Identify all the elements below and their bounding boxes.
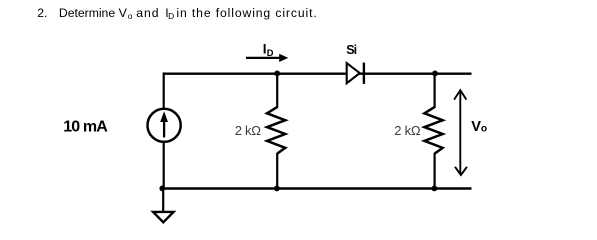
svg-text:10 mA: 10 mA bbox=[63, 119, 108, 136]
svg-text:Determine: Determine bbox=[59, 6, 115, 20]
svg-text:D: D bbox=[168, 11, 174, 21]
current arrow ID bbox=[246, 54, 288, 62]
svg-text:and: and bbox=[136, 6, 159, 20]
junction node bottom left bbox=[159, 186, 165, 192]
junction node top right bbox=[432, 71, 438, 77]
title text bbox=[37, 6, 317, 21]
diode D1 Si bbox=[347, 63, 364, 84]
wire left branch lower bbox=[163, 142, 165, 189]
junction node top middle bbox=[274, 71, 280, 77]
svg-text:V: V bbox=[119, 6, 128, 20]
svg-text:V: V bbox=[471, 119, 481, 135]
wire middle branch upper bbox=[276, 72, 278, 108]
svg-text:o: o bbox=[128, 11, 133, 21]
svg-text:2 kΩ: 2 kΩ bbox=[394, 123, 421, 138]
wire bottom horizontal bbox=[162, 187, 472, 189]
svg-text:2.: 2. bbox=[37, 6, 47, 20]
wire right branch lower bbox=[434, 153, 436, 189]
resistor R2 zigzag bbox=[424, 107, 442, 154]
ground symbol bbox=[153, 212, 174, 222]
Vo measurement arrow bbox=[454, 90, 467, 175]
junction node bottom right bbox=[432, 186, 438, 192]
junction node bottom middle bbox=[274, 186, 280, 192]
svg-text:in the following circuit.: in the following circuit. bbox=[176, 6, 317, 20]
wire top horizontal bbox=[164, 72, 472, 74]
wire middle branch lower bbox=[276, 153, 278, 189]
resistor R1 zigzag bbox=[267, 107, 285, 154]
svg-text:2 kΩ: 2 kΩ bbox=[235, 123, 262, 138]
svg-text:Si: Si bbox=[346, 43, 356, 57]
wire right branch upper bbox=[434, 72, 436, 108]
svg-text:D: D bbox=[267, 48, 274, 58]
current source arrow bbox=[160, 111, 168, 137]
ground wire stub bbox=[162, 188, 164, 211]
svg-text:o: o bbox=[481, 124, 487, 135]
wire left branch upper bbox=[163, 72, 165, 108]
current source I1 circle bbox=[148, 109, 181, 142]
